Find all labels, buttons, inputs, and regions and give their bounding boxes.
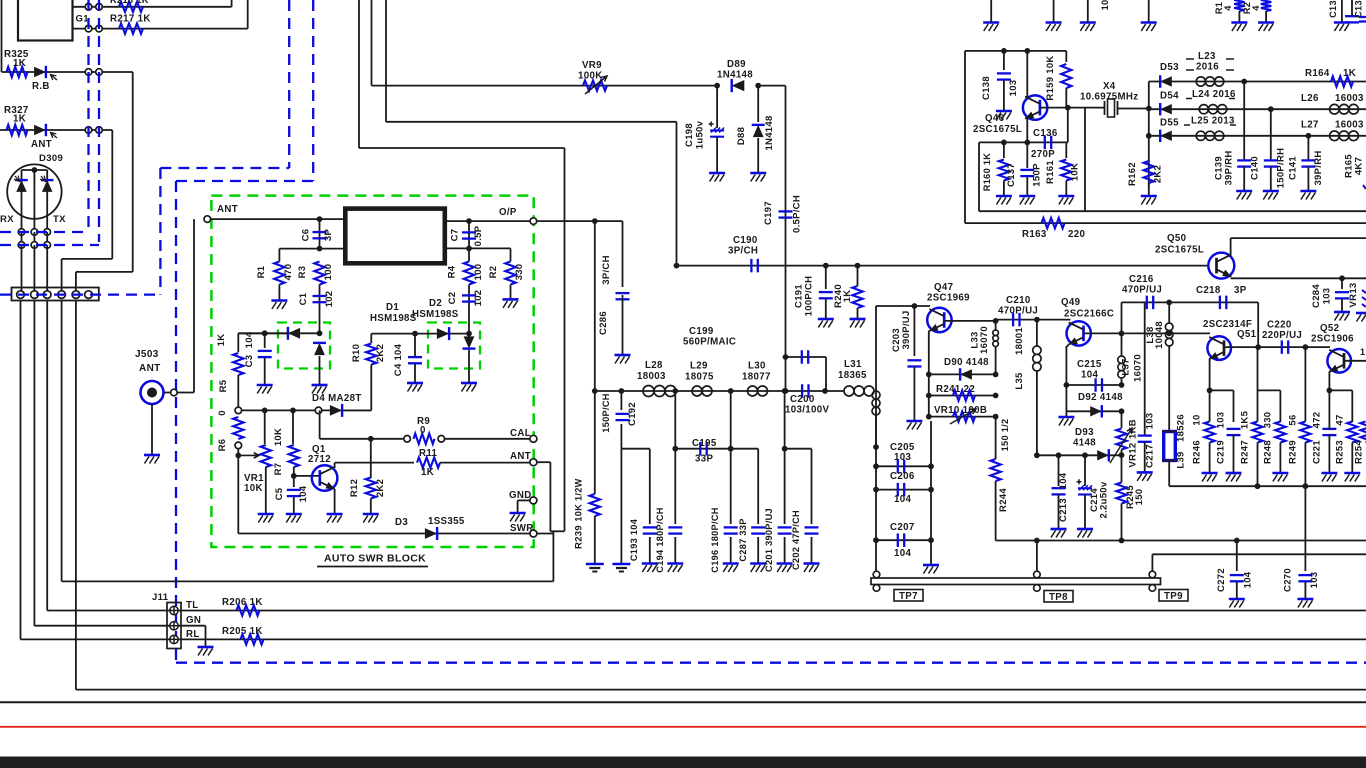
svg-text:3P/CH: 3P/CH <box>601 255 612 284</box>
blue dashed horizontal TX row <box>0 244 99 246</box>
wire ANT pin to right <box>537 461 551 463</box>
resistor R253 47 <box>1347 422 1357 443</box>
wire Q51 emitter <box>1209 359 1211 391</box>
wire Q50 emitter <box>1231 277 1366 279</box>
inductor L26 16003 <box>1330 104 1359 114</box>
transistor Q50 2SC1675L <box>1208 253 1234 279</box>
ground C203 <box>906 420 922 423</box>
ground C213 <box>1051 528 1067 531</box>
capacitor C194 180P/CH <box>674 391 676 524</box>
svg-text:X4: X4 <box>1103 81 1116 92</box>
green inner box D2 <box>428 323 480 369</box>
svg-text:D54: D54 <box>1160 91 1179 102</box>
resistor R159 10K <box>1065 51 1067 62</box>
diode D1 <box>288 328 300 339</box>
resistor R6 0 <box>233 417 243 439</box>
inductor L33 16070 <box>995 321 997 330</box>
blue dashed vertical x176 through J11 <box>175 181 177 663</box>
svg-text:L31: L31 <box>844 359 862 370</box>
wire Q49 base line to Q51 <box>1122 332 1211 334</box>
ground Q49 emitter <box>1058 416 1074 419</box>
wire R10 to D2 row <box>371 333 469 335</box>
ground C286 <box>615 354 631 357</box>
svg-text:150 1/2: 150 1/2 <box>1000 419 1010 452</box>
ground C138 <box>996 110 1012 113</box>
svg-text:R12: R12 <box>349 479 360 497</box>
wire Q1 emitter to ground <box>334 489 336 513</box>
potentiometer VR1 10K <box>264 410 266 444</box>
J11 pins <box>170 606 178 614</box>
wire Q49 base out <box>1084 332 1122 334</box>
capacitor C195 33P <box>700 442 706 456</box>
inductor L38 10048 <box>1168 302 1170 323</box>
svg-text:C196 180P/CH: C196 180P/CH <box>710 507 720 572</box>
inductor L23 2016 <box>1196 77 1224 86</box>
wire IF row1 <box>1149 81 1366 83</box>
svg-text:103: 103 <box>1309 572 1320 589</box>
capacitor C2 102 <box>468 285 470 334</box>
pin circles G1 row <box>85 25 92 32</box>
ground stub top <box>1148 0 1150 22</box>
svg-text:RL: RL <box>186 629 200 640</box>
svg-text:1K: 1K <box>842 290 853 303</box>
resistor R5 1K <box>237 333 239 352</box>
node circle R5/R6 <box>235 407 242 414</box>
resistor R248 330 <box>1275 422 1285 443</box>
svg-text:4K7: 4K7 <box>1354 157 1365 175</box>
svg-text:18075: 18075 <box>685 372 714 383</box>
wire Q51 base row <box>1224 346 1330 348</box>
resistor R1 470 <box>278 249 280 262</box>
svg-text:C287 33P: C287 33P <box>738 518 748 561</box>
resistor R12 2K2 <box>370 439 372 478</box>
wire Q50 collector <box>1230 238 1232 256</box>
wire feeder x=371 to VR9 line <box>371 0 373 86</box>
svg-text:C206: C206 <box>890 471 915 482</box>
inductor L29 18075 <box>692 386 712 396</box>
pin circles row 1 <box>18 229 25 236</box>
resistor R163 220 <box>1042 218 1065 228</box>
svg-text:10K 1/2W: 10K 1/2W <box>574 478 584 521</box>
bottom black bar <box>0 757 1366 768</box>
wire ANT row <box>0 129 112 131</box>
svg-text:470P/UJ: 470P/UJ <box>1122 285 1162 296</box>
svg-text:C141: C141 <box>1288 156 1299 180</box>
svg-text:150P: 150P <box>1032 163 1043 187</box>
svg-text:R244: R244 <box>998 488 1009 512</box>
svg-text:AUTO SWR BLOCK: AUTO SWR BLOCK <box>324 553 426 565</box>
svg-text:3P: 3P <box>323 229 334 242</box>
svg-text:D3: D3 <box>395 517 408 528</box>
svg-text:R163: R163 <box>1022 229 1047 240</box>
blue dashed vertical x313 <box>312 0 314 181</box>
svg-text:4: 4 <box>1223 5 1233 11</box>
svg-text:L28: L28 <box>645 360 663 371</box>
svg-text:L35: L35 <box>1014 372 1025 390</box>
ground C139 <box>1236 190 1252 193</box>
wire D89 to C199 feeder corner <box>758 85 785 87</box>
capacitor C200 103/100V <box>802 384 808 398</box>
SWR pin circle <box>530 530 537 537</box>
wire feeder x=386 to C190 line <box>385 0 387 122</box>
inductor L28 18003 <box>643 386 676 397</box>
svg-text:L37: L37 <box>1121 358 1132 375</box>
svg-text:C13: C13 <box>1328 0 1338 18</box>
wire C218 corner down <box>1257 302 1259 347</box>
wire y=702 line <box>0 701 1366 703</box>
ground C5 <box>286 513 302 516</box>
svg-text:HSM198S: HSM198S <box>412 309 459 320</box>
earth ground R239 <box>586 563 604 566</box>
svg-text:33P: 33P <box>695 454 713 465</box>
svg-text:L25 2013: L25 2013 <box>1191 116 1235 127</box>
svg-text:C13: C13 <box>1354 0 1364 18</box>
diode D3 1SS355 <box>425 528 437 539</box>
emitter pair R246/C219 <box>1210 389 1234 391</box>
ground D88 <box>750 172 766 175</box>
wire R1/R3 node row <box>279 248 345 250</box>
label TP9 <box>1159 590 1188 602</box>
svg-text:104: 104 <box>894 548 911 559</box>
svg-text:R7: R7 <box>273 463 284 476</box>
svg-text:Q51: Q51 <box>1237 329 1257 340</box>
svg-text:R216 1K: R216 1K <box>110 0 149 5</box>
svg-text:R162: R162 <box>1127 162 1138 186</box>
D309 center leg <box>33 170 35 232</box>
svg-text:R206 1K: R206 1K <box>222 597 263 608</box>
svg-text:0.5P/CH: 0.5P/CH <box>792 195 803 233</box>
capacitor C284 103 <box>1341 278 1343 289</box>
capacitor C198 1u50v polarized <box>716 86 718 128</box>
ground R248 <box>1272 472 1288 475</box>
svg-text:472: 472 <box>1312 412 1323 429</box>
blue dashed vertical pair x289 <box>288 0 290 168</box>
svg-text:102: 102 <box>324 291 335 308</box>
svg-text:J11: J11 <box>152 592 169 603</box>
svg-text:2SC1906: 2SC1906 <box>1311 334 1354 345</box>
svg-text:390P/UJ: 390P/UJ <box>901 310 912 349</box>
svg-text:D89: D89 <box>727 59 746 70</box>
svg-text:R248: R248 <box>1263 440 1274 464</box>
svg-text:C218: C218 <box>1196 285 1221 296</box>
wire CAL row <box>319 410 321 438</box>
svg-text:C217: C217 <box>1145 444 1156 468</box>
svg-text:R10: R10 <box>351 344 362 362</box>
svg-text:Q50: Q50 <box>1167 233 1186 244</box>
svg-text:R11: R11 <box>419 448 438 459</box>
svg-text:TP8: TP8 <box>1049 592 1068 603</box>
wire 1K/C3 node <box>238 332 296 334</box>
capacitor C270 103 <box>1298 575 1312 581</box>
svg-text:C221: C221 <box>1312 440 1323 464</box>
svg-text:C2: C2 <box>447 292 458 305</box>
svg-text:R246: R246 <box>1192 440 1203 464</box>
svg-text:103: 103 <box>1322 288 1333 305</box>
TP7 pins <box>873 571 880 578</box>
wire main line <box>595 390 844 392</box>
wire subrail B <box>675 448 758 450</box>
capacitor C217 103 <box>1144 302 1146 435</box>
inductor L37 16070 <box>1121 333 1123 356</box>
wire GN line <box>34 625 174 627</box>
svg-text:R217 1K: R217 1K <box>110 14 151 25</box>
svg-text:TL: TL <box>186 600 199 611</box>
ground R162 <box>1141 195 1157 198</box>
blue dashed long horizontal y=663 <box>176 662 1366 664</box>
svg-text:ANT: ANT <box>510 451 531 462</box>
svg-text:10K: 10K <box>273 428 284 446</box>
svg-text:ANT: ANT <box>31 139 52 150</box>
svg-text:104: 104 <box>1058 472 1069 489</box>
capacitor C4 104 <box>414 334 416 356</box>
pin circles R.B row <box>85 69 92 76</box>
wire IF row3 <box>1149 135 1366 137</box>
svg-text:47: 47 <box>1335 414 1346 425</box>
ground D1 leg <box>312 384 328 387</box>
ground D2 leg <box>461 382 477 385</box>
svg-text:C137: C137 <box>1006 163 1017 187</box>
svg-text:10: 10 <box>1192 414 1203 425</box>
pin circles row 2 <box>18 242 25 249</box>
capacitor C193 104 <box>649 449 651 524</box>
wire SWR to corner <box>537 533 554 535</box>
ground C4 <box>407 382 423 385</box>
svg-text:103: 103 <box>894 452 911 463</box>
ground Q1 <box>327 513 343 516</box>
svg-text:103: 103 <box>1145 413 1156 430</box>
ground C284 <box>1334 311 1350 314</box>
strip pin circles <box>17 291 25 299</box>
svg-text:C192: C192 <box>627 402 638 426</box>
resistor R239 10K 1/2W <box>594 391 596 494</box>
svg-text:16003: 16003 <box>1335 93 1364 104</box>
svg-text:TP7: TP7 <box>899 591 918 602</box>
svg-text:2016: 2016 <box>1196 62 1219 73</box>
wire R6 bottom junction <box>237 449 239 456</box>
label TP8 <box>1044 591 1073 603</box>
svg-text:C3: C3 <box>244 355 255 368</box>
svg-text:R164: R164 <box>1305 68 1330 79</box>
svg-text:C284: C284 <box>1311 284 1322 308</box>
wire y=581 return line <box>62 580 554 582</box>
svg-text:C197: C197 <box>763 201 774 225</box>
wire R163 line y=223 <box>965 222 1366 224</box>
ground C198 <box>709 172 725 175</box>
TP9 pins <box>1149 571 1156 578</box>
svg-text:0.5P: 0.5P <box>473 225 484 246</box>
capacitor C191 100P/CH <box>825 266 827 289</box>
ground C219 <box>1226 472 1242 475</box>
svg-text:2K2: 2K2 <box>375 479 386 497</box>
wire GND pin stub <box>518 499 530 501</box>
svg-text:C138: C138 <box>981 76 992 100</box>
wire Q47 base to ladder <box>944 320 996 322</box>
svg-text:ANT: ANT <box>217 204 238 215</box>
IC block (cut off at top) <box>18 0 73 41</box>
ground C193 <box>642 562 658 565</box>
ground R12 <box>363 513 379 516</box>
wire D1 row <box>238 332 319 334</box>
svg-text:16003: 16003 <box>1335 120 1364 131</box>
resistor R240 1K <box>857 266 859 286</box>
svg-text:10K: 10K <box>1070 163 1081 181</box>
capacitor C192 150P/CH <box>620 391 622 410</box>
svg-text:1SS355: 1SS355 <box>428 516 465 527</box>
wire RL line <box>21 638 1366 640</box>
wire Q49 emitter column <box>1066 344 1068 347</box>
wire F1 row y=7 <box>73 6 232 8</box>
svg-text:C216: C216 <box>1129 274 1154 285</box>
wire C136 row <box>979 141 1068 143</box>
capacitor C7 0.5P <box>462 232 476 238</box>
svg-text:18526: 18526 <box>1176 414 1187 442</box>
ground C221 <box>1321 472 1337 475</box>
svg-text:D309: D309 <box>39 153 63 164</box>
wire feeder x=359 <box>358 0 360 148</box>
diode D4 <box>330 405 342 416</box>
wire osc right vert <box>1084 108 1086 212</box>
svg-text:R249: R249 <box>1288 440 1299 464</box>
svg-text:L29: L29 <box>690 361 708 372</box>
wire O/P to C286 corner <box>537 220 623 222</box>
svg-text:GND: GND <box>509 490 532 501</box>
junction row1 <box>1241 79 1247 85</box>
svg-text:100: 100 <box>473 264 484 281</box>
svg-text:1K: 1K <box>13 58 26 69</box>
resistor R9 0 with jumper circles <box>404 436 411 443</box>
svg-text:Q46: Q46 <box>985 113 1005 124</box>
svg-text:C193 104: C193 104 <box>629 518 639 561</box>
wire D93 rail y=455.3 <box>1037 454 1122 456</box>
svg-text:C207: C207 <box>890 522 915 533</box>
svg-text:C6: C6 <box>301 229 312 242</box>
wires to strip <box>21 245 23 295</box>
junction C7 <box>466 218 472 224</box>
svg-text:10: 10 <box>1100 0 1110 10</box>
ground C270 <box>1297 598 1313 601</box>
svg-text:C199: C199 <box>689 326 714 337</box>
svg-text:C210: C210 <box>1006 295 1031 306</box>
capacitor C214 2.2u50v polarized <box>1084 455 1086 486</box>
svg-text:103/100V: 103/100V <box>785 405 829 416</box>
capacitor C203 390P/UJ <box>912 303 918 309</box>
capacitor C219 103 <box>1227 429 1241 435</box>
svg-text:1: 1 <box>1360 347 1365 357</box>
svg-text:2K2: 2K2 <box>375 344 386 362</box>
svg-text:16070: 16070 <box>979 326 990 354</box>
wire Q1 base <box>294 475 320 477</box>
svg-text:C5: C5 <box>274 487 285 500</box>
svg-text:10048: 10048 <box>1154 321 1165 349</box>
pair R247/R248 <box>1258 389 1281 391</box>
svg-text:GN: GN <box>186 615 201 626</box>
svg-text:470P/UJ: 470P/UJ <box>998 306 1038 317</box>
svg-text:R159 10K: R159 10K <box>1045 55 1056 100</box>
svg-text:3P: 3P <box>1234 285 1247 296</box>
svg-text:R247: R247 <box>1240 440 1251 464</box>
svg-text:TX: TX <box>53 214 66 225</box>
svg-text:D90 4148: D90 4148 <box>944 357 989 368</box>
svg-text:18077: 18077 <box>742 372 771 383</box>
svg-text:D1: D1 <box>386 302 399 313</box>
D309 right leg TX <box>46 170 48 232</box>
blue dashed vertical x160 <box>159 168 161 295</box>
wire y=690 line <box>76 689 1366 691</box>
resistor R10 2K2 <box>370 334 372 343</box>
ground C196 <box>723 562 739 565</box>
capacitor C137 150P <box>1026 142 1028 168</box>
svg-text:C201 390P/UJ: C201 390P/UJ <box>764 508 774 572</box>
wire C210 junction to Q49 <box>1037 319 1071 321</box>
wire J503 to ANT node <box>164 392 195 394</box>
capacitor C141 39P/RH <box>1307 136 1309 160</box>
transformer coupler block <box>345 209 445 264</box>
ground VR1 <box>258 513 274 516</box>
svg-text:C190: C190 <box>733 235 758 246</box>
capacitor C139 39P/RH <box>1243 82 1245 161</box>
svg-text:HSM198S: HSM198S <box>370 313 417 324</box>
svg-text:102: 102 <box>473 290 484 307</box>
svg-text:R161: R161 <box>1045 160 1056 184</box>
wire X4 node column <box>1148 82 1150 188</box>
svg-text:L39: L39 <box>1176 451 1187 468</box>
capacitor C221 472 <box>1322 429 1336 435</box>
svg-text:R1: R1 <box>256 265 267 278</box>
svg-text:L30: L30 <box>748 361 766 372</box>
J503 ground stem <box>151 404 153 455</box>
crystal X4 <box>1105 99 1118 117</box>
wire rail y=540.5 <box>996 540 1366 542</box>
ground C137 <box>1019 195 1035 198</box>
svg-text:18003: 18003 <box>637 371 666 382</box>
wire D4 row <box>242 409 372 411</box>
svg-text:100: 100 <box>323 264 334 281</box>
junction C6 <box>317 216 323 222</box>
J503 jack circle <box>141 381 164 404</box>
svg-text:R5: R5 <box>218 379 229 392</box>
svg-text:C198: C198 <box>684 123 695 147</box>
GND pin circle <box>530 497 537 504</box>
ground C207 col <box>923 564 939 567</box>
svg-text:RX: RX <box>0 214 14 225</box>
ground R2xx <box>1258 21 1274 24</box>
CAL pin circle <box>530 435 537 442</box>
wire D3 SWR row <box>238 533 531 535</box>
svg-text:220: 220 <box>1068 229 1085 240</box>
ANT pin circle <box>530 459 537 466</box>
svg-text:0: 0 <box>217 410 228 416</box>
potentiometer VR12 1KB <box>1121 411 1123 428</box>
diode D88 1N4148 vertical <box>757 86 759 122</box>
wire G1 row y=28.6 <box>73 28 248 30</box>
wire rail y=486.2 <box>1169 485 1366 487</box>
wire C216 link <box>1121 302 1123 333</box>
capacitor C140 150P/RH <box>1270 109 1272 160</box>
svg-text:R2: R2 <box>488 266 499 279</box>
svg-text:VR13: VR13 <box>1348 283 1359 308</box>
svg-text:D92 4148: D92 4148 <box>1078 392 1123 403</box>
inductor L35 18001 <box>1036 320 1038 346</box>
svg-text:D93: D93 <box>1075 427 1094 438</box>
D309 top bar <box>22 169 48 171</box>
svg-text:3P/CH: 3P/CH <box>728 246 758 257</box>
svg-text:C270: C270 <box>1283 568 1294 592</box>
svg-text:1N4148: 1N4148 <box>717 70 753 81</box>
capacitor C287 33P <box>757 449 759 524</box>
svg-text:D2: D2 <box>429 298 442 309</box>
svg-text:ANT: ANT <box>139 363 161 374</box>
svg-text:L27: L27 <box>1301 120 1319 131</box>
